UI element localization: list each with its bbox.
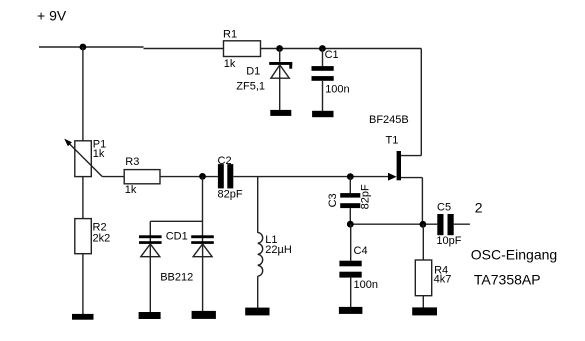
svg-text:1k: 1k [125,184,137,196]
varicap diode CD1 left half BB212 [139,235,162,256]
svg-text:OSC-Eingang: OSC-Eingang [471,247,557,263]
svg-text:T1: T1 [386,135,399,147]
ground below C4 [339,307,363,314]
node junction top rail / P1 branch [80,44,87,51]
wire R2 to ground [82,254,84,315]
ground below CD1 left [139,312,161,319]
capacitor C4 100n [339,245,378,291]
wire C3 top stub [349,177,351,194]
wire CD1 anode link horizontal [150,220,202,222]
zener diode D1 ZF5,1 [236,62,292,93]
wire source node horizontal [350,223,437,225]
wire top rail left segment [39,46,144,48]
wire C4 top stub [350,224,352,261]
wire D1 to ground [279,65,281,111]
svg-text:100n: 100n [325,84,349,96]
resistor R3 1k [124,156,160,196]
transistor T1 BF245B JFET [369,114,422,180]
svg-text:+ 9V: + 9V [37,8,67,24]
svg-text:22µH: 22µH [265,244,292,256]
wire C5 output [454,223,470,225]
wire C3 bottom stub [349,208,351,224]
ground below D1 [270,110,291,116]
node junction CD1 tap [199,173,206,180]
varicap diode CD1 right half BB212 [160,231,214,284]
svg-text:100n: 100n [354,279,378,291]
svg-text:C3: C3 [327,193,339,207]
svg-text:R1: R1 [223,29,237,41]
svg-text:BF245B: BF245B [369,114,409,126]
wire P1 wiper to R3 [102,176,124,178]
svg-text:R3: R3 [125,156,139,168]
capacitor C1 100n [312,49,350,96]
svg-text:C1: C1 [325,49,339,61]
ground below C1 [312,111,333,117]
svg-text:BB212: BB212 [160,272,193,284]
ground below CD1 right [192,311,216,319]
svg-text:TA7358AP: TA7358AP [474,272,541,288]
wire C1 to ground [322,81,324,111]
wire C4 to ground [350,278,352,308]
ground below R2 [72,314,94,320]
svg-text:1k: 1k [224,58,236,70]
wire T1 drain to top rail [420,49,422,156]
node junction C3 bottom / C4 [347,221,354,228]
svg-text:4k7: 4k7 [434,273,452,285]
wire top rail middle segment [144,48,224,50]
resistor R2 2k2 [75,219,110,254]
node junction C3 top tap [347,173,354,180]
svg-text:ZF5,1: ZF5,1 [236,81,265,93]
wire C1 top stub [322,49,324,67]
capacitor C3 82pF [327,184,371,209]
svg-text:10pF: 10pF [436,235,461,247]
capacitor C2 82pF [218,155,243,201]
resistor R1 [223,29,261,70]
wire L1 top stub [257,177,259,233]
ground below L1 [245,308,269,316]
ground below R4 [412,307,437,315]
wire CD1 left diode stub [149,221,151,244]
wire top rail right segment [261,48,422,50]
wire left branch vertical to P1 [82,47,84,141]
svg-text:82pF: 82pF [360,184,372,209]
potentiometer P1 1k [64,139,106,177]
svg-text:CD1: CD1 [166,231,188,243]
wire D1 anode stub [279,49,281,66]
svg-text:C4: C4 [354,245,368,257]
wire CD1 left to ground [149,244,151,312]
svg-text:C2: C2 [218,155,232,167]
wire R4 to ground [422,296,424,308]
wire P1 bottom to R2 [82,177,84,219]
wire CD1 right to ground [202,244,204,311]
wire R4 top stub [422,224,424,260]
svg-text:1k: 1k [93,148,105,160]
resistor R4 4k7 [415,260,451,296]
wire CD1 branch vertical [202,177,204,244]
svg-text:R2: R2 [93,221,107,233]
node junction C1 tap [319,45,326,52]
svg-text:C5: C5 [437,202,451,214]
wire C2 to gate of T1 [233,176,388,178]
capacitor C5 10pF [436,202,461,248]
inductor L1 22uH [258,232,292,276]
node junction source / R4 / C5 [420,221,427,228]
wire L1 to ground [257,276,259,308]
svg-text:D1: D1 [246,66,260,78]
svg-text:2k2: 2k2 [93,233,111,245]
wire R3 to C2 [160,176,218,178]
svg-text:82pF: 82pF [218,189,243,201]
wire T1 source down [421,178,423,225]
svg-text:2: 2 [475,200,483,216]
node junction D1 tap [276,45,283,52]
